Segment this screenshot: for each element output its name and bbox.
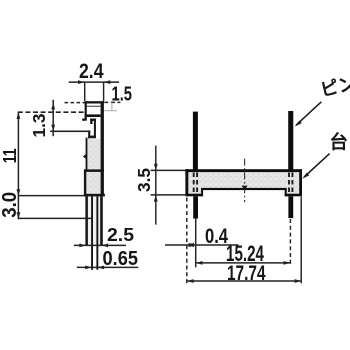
dimension 0.65 left arrow — [85, 266, 92, 270]
dashed reference at part top going left — [65, 102, 85, 104]
side view: hook curl — [90, 119, 92, 124]
extension vertical base-right (solid) — [300, 197, 302, 283]
svg-text:台: 台 — [330, 132, 349, 153]
label pin leader arrowhead — [295, 121, 302, 127]
front view: base top edge — [185, 169, 302, 172]
dimension 0.65 line — [77, 266, 139, 268]
dimension 0.4 right arrow — [189, 243, 196, 247]
dimension 3.5 bottom extension — [151, 194, 186, 196]
front view: right foot bottom — [285, 194, 302, 197]
side view: hatch column fill — [87, 139, 100, 171]
dashed reference line y=112 — [18, 111, 85, 113]
side view: pin inner right line — [96, 196, 98, 269]
side view: hatch column left edge — [86, 138, 88, 171]
dimension 11/3.0 shared vertical line — [17, 112, 19, 219]
dimension 2.4 left extension — [84, 82, 86, 101]
front view: left step — [201, 188, 203, 196]
extension line pin shoulder y=218.4 — [18, 217, 92, 219]
side view: base bottom edge — [84, 194, 105, 197]
dimension 2.5 line — [74, 244, 126, 246]
dimension 3.0 arrow at base bottom — [17, 189, 21, 196]
side view: body left edge — [85, 101, 87, 121]
front view: right pin lower — [288, 196, 293, 218]
front view: right foot interior fill — [287, 188, 300, 194]
side view: hook right edge — [94, 119, 96, 138]
front view: centerline — [244, 159, 246, 203]
dimension 3.5 top extension — [151, 169, 186, 171]
side view: hook bottom — [88, 136, 96, 139]
extension vertical base-left (dashed) — [186, 198, 188, 284]
side view: hook lower-left edge — [88, 130, 90, 138]
front view: left foot interior fill — [188, 188, 201, 194]
side view: pin area gray fill — [88, 196, 100, 245]
svg-text:3.5: 3.5 — [134, 168, 154, 192]
side view: body top edge — [85, 101, 104, 103]
front view: middle bottom edge — [201, 188, 287, 190]
label pin leader line — [296, 102, 321, 125]
dimension 2.4 left arrow — [78, 80, 85, 84]
svg-text:2.5: 2.5 — [107, 225, 134, 245]
side view: right edge thick — [101, 101, 104, 196]
svg-text:0.65: 0.65 — [103, 248, 139, 270]
dimension 0.4 line — [165, 244, 238, 246]
svg-text:11: 11 — [0, 148, 20, 163]
dimension 2.4 right arrow — [104, 80, 111, 84]
label base leader arrowhead — [302, 173, 309, 179]
front view: right pin hidden (dashed in base) — [288, 173, 290, 194]
extension vertical pin-center right (dashed) — [289, 219, 291, 264]
dimension 15.24 line — [196, 262, 290, 264]
side view: base interior fill — [86, 172, 100, 194]
dimension 1.3 down arrow — [51, 125, 55, 132]
front view: center notch — [242, 186, 248, 190]
side view: slot line / 1.3 lower reference — [50, 131, 90, 133]
dimension 0.65 right arrow — [97, 266, 104, 270]
front view: right pin upper — [288, 111, 293, 170]
front view: left pin lower — [193, 196, 198, 218]
side view: latch tab on left edge — [83, 154, 87, 160]
dimension 2.5 right arrow — [101, 244, 108, 248]
dimension 11 up arrow — [17, 112, 21, 119]
side view: hook top bar — [90, 119, 96, 121]
front view: base interior fill — [188, 172, 299, 188]
dimension 11 down arrow — [17, 212, 21, 219]
label base leader line — [304, 154, 330, 177]
side view: pin outer right line — [100, 196, 103, 246]
dimension 17.74 right arrow — [295, 279, 302, 283]
dimension 1.3 up arrow — [51, 103, 55, 110]
front view: left foot bottom — [185, 194, 202, 197]
front view: left pin upper — [193, 112, 198, 170]
dimension 3.5 vertical line — [155, 146, 157, 225]
dimension 0.4 left arrow — [187, 243, 194, 247]
side view: left foot — [82, 119, 85, 121]
front view: base right edge — [299, 169, 302, 196]
dimension 2.5 left arrow — [79, 244, 86, 248]
front view: base left edge — [185, 169, 188, 196]
extension line base bottom going left — [18, 195, 84, 197]
front view: right step — [285, 188, 287, 196]
dimension 1.5 faint vertical — [111, 102, 113, 110]
dimension 1.5 faint lower reference — [104, 110, 117, 112]
side view: base top edge — [84, 169, 104, 172]
dimension 15.24 right arrow — [284, 261, 291, 265]
dimension 3.5 top arrow — [154, 164, 158, 171]
svg-text:0.4: 0.4 — [205, 225, 228, 248]
side view: ledge (box bottom) — [85, 114, 101, 117]
dimension 1.3 vertical line — [52, 100, 54, 136]
dimension 17.74 left arrow — [187, 279, 194, 283]
dimension 1.5 dashed reference — [104, 101, 120, 103]
front view: left pin hidden (dashed in base) — [193, 173, 195, 194]
svg-text:1.3: 1.3 — [29, 113, 49, 137]
side view: base left edge — [84, 169, 86, 196]
extension vertical pin-center left (solid) — [195, 219, 197, 268]
dimension 3.5 bottom arrow — [154, 195, 158, 202]
side view: inner thin line — [87, 106, 101, 107]
dimension 2.4 right extension — [103, 82, 105, 101]
svg-text:17.74: 17.74 — [227, 261, 266, 285]
side view: pin inner left line — [91, 196, 93, 269]
svg-text:2.4: 2.4 — [79, 60, 104, 83]
side view: pin outer left line — [85, 196, 88, 246]
dimension 17.74 line — [187, 280, 301, 282]
dimension 2.4 line — [69, 81, 119, 83]
dimension 15.24 left arrow — [196, 261, 203, 265]
